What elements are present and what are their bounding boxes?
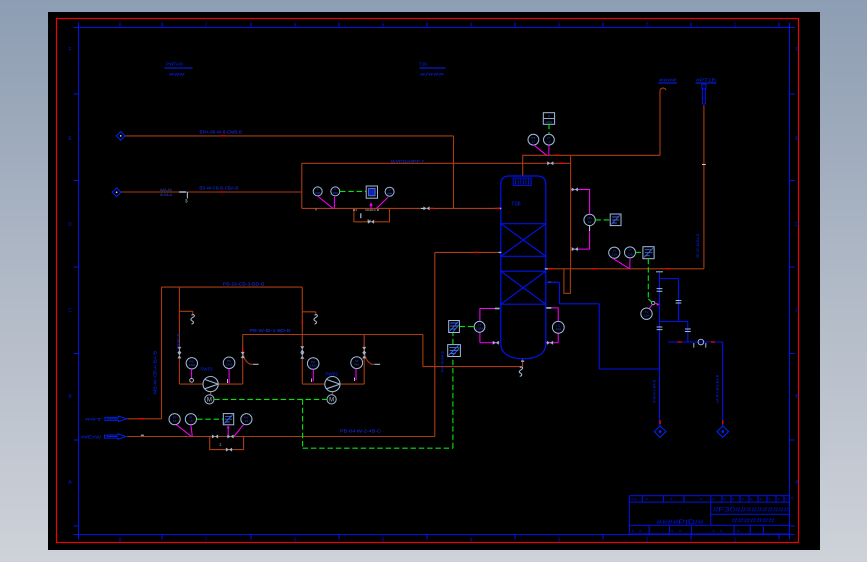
svg-text:2: 2 (646, 538, 649, 544)
square PIC top (543, 113, 554, 125)
svg-text:###: ### (315, 191, 320, 195)
vent label top-right (659, 78, 716, 83)
svg-text:<: < (791, 496, 794, 502)
svg-text:12A: 12A (644, 314, 650, 318)
svg-text:P: P (548, 115, 550, 119)
valve on overhead branch (547, 161, 553, 165)
blue inner border (79, 28, 790, 535)
motor M1 (205, 395, 214, 404)
label small note (160, 188, 173, 197)
valve V on feed line (179, 191, 186, 193)
tiny white notes (315, 208, 380, 223)
wire drain curl1 (243, 350, 253, 365)
svg-text:5: 5 (382, 538, 385, 544)
svg-text:#: # (724, 498, 726, 502)
manifold valves (212, 435, 218, 439)
svg-text:PAW: PAW (546, 120, 553, 124)
svg-text:3: 3 (558, 538, 561, 544)
svg-text:4: 4 (470, 538, 473, 544)
pipe overhead outlet (546, 268, 704, 270)
level loop left magenta (480, 309, 500, 343)
svg-text:#: # (751, 498, 753, 502)
svg-text:M: M (329, 398, 334, 404)
stream label PWTA top-left (166, 62, 186, 78)
arrow symbol 2 (105, 434, 127, 439)
svg-text:W/DPC-B: W/DPC-B (177, 333, 181, 349)
svg-text:8: 8 (119, 538, 122, 544)
flame arrestor symbol (702, 84, 706, 104)
svg-text:D: D (795, 222, 799, 228)
pipe flare riser (703, 105, 705, 269)
gauge tails (192, 369, 356, 384)
svg-text:##ExW: ##ExW (81, 435, 102, 440)
svg-text:MB-W-CB-A-BA-B: MB-W-CB-A-BA-B (153, 351, 158, 394)
svg-text:8: 8 (119, 23, 122, 29)
green signal lines (197, 124, 652, 449)
svg-text:1303: 1303 (310, 363, 317, 367)
svg-text:D: D (68, 222, 72, 228)
instrument circles on overhead (528, 134, 539, 145)
svg-text:##T: ##T (85, 417, 103, 422)
title block (629, 496, 789, 534)
svg-text:12: 12 (547, 140, 551, 144)
svg-text:#: # (742, 498, 744, 502)
svg-text:12A: 12A (612, 253, 618, 257)
instrument AT (641, 308, 652, 319)
bottom ruler ticks (162, 535, 779, 540)
instrument DP transmitter (584, 214, 595, 225)
instrument leaders magenta (318, 196, 388, 208)
gauges train1 (186, 358, 197, 369)
pipe column overhead (523, 91, 660, 176)
svg-text:#/###: #/### (420, 72, 445, 77)
valve on sub-loop (368, 220, 374, 224)
svg-text:#: # (646, 498, 648, 502)
demister pad (513, 178, 531, 186)
svg-text:PB-84-W-2-4B-C: PB-84-W-2-4B-C (340, 428, 381, 433)
svg-text:2: 2 (220, 443, 222, 447)
left ruler ticks (74, 94, 79, 526)
square PDI (610, 214, 621, 226)
manifold instruments (169, 414, 180, 425)
svg-text:T08: T08 (511, 201, 520, 207)
ruler numerals (68, 23, 799, 544)
svg-text:4: 4 (470, 23, 473, 29)
stream label TK top-middle (419, 62, 445, 78)
svg-text:SF-CF-M-BA-B: SF-CF-M-BA-B (696, 233, 700, 258)
svg-text:7: 7 (205, 23, 208, 29)
svg-text:3: 3 (558, 23, 561, 29)
svg-text:BS-W-CB-B-CBA-B: BS-W-CB-B-CBA-B (199, 185, 238, 190)
svg-text:1: 1 (734, 23, 737, 29)
svg-text:#PT1B: #PT1B (696, 78, 716, 83)
svg-text:#: # (760, 498, 762, 502)
pipe pump2 discharge (340, 335, 364, 385)
svg-text:####PID/#: ####PID/# (656, 519, 704, 526)
svg-text:#: # (733, 498, 735, 502)
column T01 vessel (501, 176, 546, 359)
pipe BS feed line (121, 191, 302, 193)
svg-text:12: 12 (588, 220, 592, 224)
svg-text:F: F (68, 47, 71, 53)
S-break symbols (191, 315, 194, 324)
svg-text:###: ### (333, 191, 338, 195)
svg-text:#F30##########: #F30########## (713, 507, 790, 513)
svg-text:YHQ-W-BA-B: YHQ-W-BA-B (440, 351, 444, 373)
svg-text:#: # (769, 498, 771, 502)
instrument PI-1 (313, 187, 394, 196)
svg-text:13: 13 (173, 419, 177, 423)
bright red flow arrows (139, 136, 723, 424)
gray drain dashes (253, 363, 380, 365)
squares LIC (449, 321, 460, 333)
svg-text:C: C (68, 308, 72, 314)
wire sample sub-loop (354, 208, 390, 221)
svg-text:#: # (700, 498, 702, 502)
svg-text:12B: 12B (627, 252, 633, 256)
pipe BPA main line (125, 136, 454, 209)
svg-text:BPA-96-W-8-CMB-B: BPA-96-W-8-CMB-B (200, 129, 243, 134)
svg-text:C4: C4 (367, 219, 371, 223)
svg-text:#######: ####### (732, 519, 776, 525)
svg-text:###: ### (387, 191, 392, 195)
svg-text:3: 3 (185, 198, 188, 203)
svg-text:DCW-C-M: DCW-C-M (366, 208, 380, 212)
feed arrows left (81, 417, 103, 440)
svg-text:A-W-A-1-BA-B: A-W-A-1-BA-B (652, 379, 656, 403)
riser valves (241, 352, 245, 358)
svg-text:####: #### (659, 78, 677, 83)
svg-text:1301: 1301 (188, 363, 195, 367)
instrument LT (474, 321, 485, 332)
inline valve circle (698, 339, 704, 345)
instruments on outlet main (609, 247, 620, 258)
wire U seal loop (564, 269, 571, 294)
node D4 diamond (717, 426, 729, 438)
svg-text:#: # (713, 498, 715, 502)
svg-text:AAA-AA: AAA-AA (160, 188, 173, 192)
svg-text:C: C (795, 308, 799, 314)
pipe header1 (162, 287, 325, 384)
svg-text:T1K: T1K (419, 62, 428, 67)
arrow symbol 1 (105, 416, 127, 421)
loop valves (495, 308, 500, 310)
node D2 off-page diamond (112, 188, 121, 197)
red outer frame (57, 19, 799, 543)
svg-text:PWP1: PWP1 (201, 367, 214, 372)
svg-text:PB-16-CB-3-BD-B: PB-16-CB-3-BD-B (223, 282, 265, 287)
svg-text:PB-W-BI-1-BD-B: PB-W-BI-1-BD-B (250, 328, 291, 333)
svg-text:###: ### (169, 72, 186, 77)
rotated pipe labels (153, 233, 720, 403)
svg-text:M: M (207, 398, 212, 404)
svg-text:13: 13 (189, 419, 193, 423)
node D1 off-page diamond (116, 132, 125, 141)
pipe pump1 suction (179, 287, 203, 384)
motor M2 (327, 395, 336, 404)
svg-text:2: 2 (646, 23, 649, 29)
svg-text:5: 5 (382, 23, 385, 29)
svg-text:#: # (670, 498, 672, 502)
valve on box bottom (423, 206, 429, 210)
svg-text:7: 7 (205, 538, 208, 544)
svg-text:#1#: #1# (631, 498, 637, 502)
svg-text:A: A (315, 208, 317, 212)
border corner overshoots (74, 23, 795, 540)
svg-text:12: 12 (532, 140, 536, 144)
pipe feed2 run (127, 252, 501, 436)
svg-text:W-MA-A: W-MA-A (160, 193, 173, 197)
right ruler ticks (790, 94, 795, 526)
level loop right magenta (546, 308, 558, 343)
svg-text:1302: 1302 (226, 363, 233, 367)
svg-text:LA-W-CB-B-BA-B: LA-W-CB-B-BA-B (716, 374, 720, 403)
svg-text:PWP2: PWP2 (326, 372, 339, 377)
svg-text:6: 6 (294, 23, 297, 29)
svg-text:B/VPDQ4PP-T: B/VPDQ4PP-T (391, 159, 425, 164)
wire instrument-box loop (302, 163, 571, 208)
wire seal riser (570, 155, 572, 268)
svg-text:12A: 12A (556, 327, 562, 331)
svg-text:D4: D4 (353, 208, 357, 212)
wire bypass loop (210, 437, 244, 450)
instrument LG (552, 321, 564, 333)
node D3 diamond (654, 426, 666, 438)
pipe feed1 run (127, 287, 161, 419)
svg-text:F: F (795, 47, 798, 53)
top ruler ticks (162, 23, 779, 28)
wire pump motor stubs (211, 392, 333, 395)
blue utility piping (546, 272, 723, 426)
vent elbow (660, 88, 666, 91)
pipe pump1 discharge (218, 335, 522, 385)
flange pairs (656, 272, 691, 332)
svg-text:#: # (778, 498, 780, 502)
svg-text:#: # (785, 498, 787, 502)
svg-text:1: 1 (734, 538, 737, 544)
wire drain curl2 (364, 350, 374, 365)
svg-text:13: 13 (245, 419, 249, 423)
wire drain stub2 (302, 312, 316, 315)
svg-text:6: 6 (294, 538, 297, 544)
manifold leaders (176, 425, 243, 437)
pump P2 (325, 377, 340, 392)
svg-text:12RA: 12RA (476, 327, 485, 331)
pump P1 (203, 377, 218, 392)
svg-text:PWTA/9: PWTA/9 (166, 62, 183, 67)
instrument FY square (366, 186, 377, 198)
